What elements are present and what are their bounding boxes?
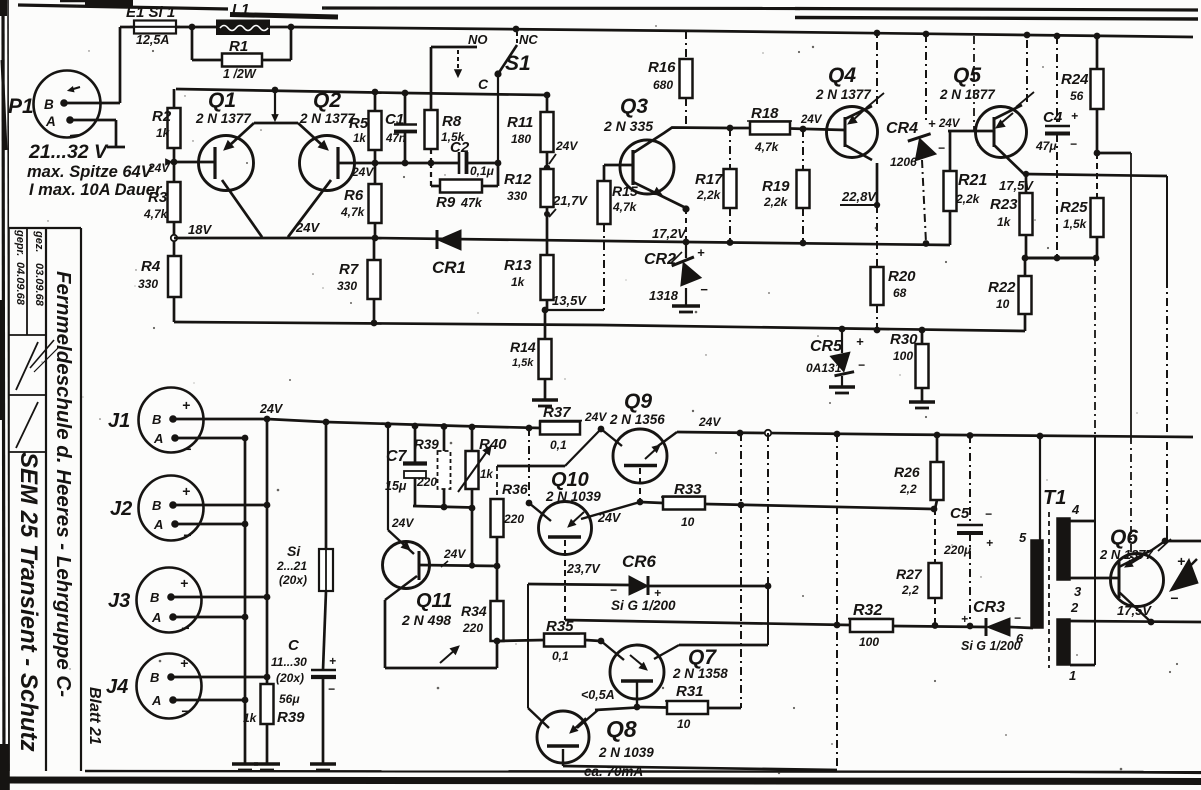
wire Q6 emitter [1119,592,1151,622]
svg-text:B: B [44,97,54,112]
svg-text:C5: C5 [950,505,970,522]
diode CR5 [806,329,865,386]
inductor L1 [217,1,291,34]
svg-text:R14: R14 [510,339,536,355]
svg-text:180: 180 [511,132,531,146]
label 24V Q11b [441,547,466,567]
svg-text:+: + [180,575,188,591]
svg-text:12,5A: 12,5A [136,33,169,47]
svg-text:10: 10 [996,297,1010,311]
svg-text:5: 5 [1019,530,1027,545]
svg-text:24V: 24V [938,118,961,130]
svg-text:2 N 335: 2 N 335 [603,118,653,134]
wire R31 riser [740,505,742,708]
svg-text:1206: 1206 [890,155,917,169]
node R7 top [372,235,379,242]
wire bar y258 [1025,257,1097,260]
resistor R35 [497,618,601,663]
node R18-Q4 [800,126,807,133]
svg-text:R26: R26 [894,464,920,480]
resistor R3 [143,162,181,238]
transformer T1 [1016,436,1082,683]
node y163 R8 [428,160,435,167]
svg-text:J1: J1 [108,410,130,432]
node rail Q4 [874,30,881,37]
wire Q10 emitter [568,502,640,527]
svg-text:0A131: 0A131 [806,361,842,375]
resistor R31 [637,683,741,731]
label 21,7V [544,193,588,217]
node y90 center [272,87,279,94]
svg-text:−: − [610,583,617,597]
svg-text:I max. 10A Dauer: I max. 10A Dauer [29,181,163,199]
svg-text:4: 4 [1071,502,1080,517]
wire T1 pin4 [1070,520,1095,523]
wire Q11 emitter [385,576,497,668]
resistor R25 [1060,153,1104,258]
resistor R24 [1061,36,1104,153]
node rail R39b [441,423,448,430]
svg-text:1k: 1k [511,275,526,289]
wire Q6 collector [1119,538,1201,567]
svg-text:0,1: 0,1 [552,649,569,663]
connector J3 [108,568,202,637]
connector J4 [106,654,202,720]
svg-text:0,1μ: 0,1μ [470,164,495,178]
svg-text:C: C [288,637,300,654]
resistor R1 [192,27,291,81]
svg-text:Blatt 21: Blatt 21 [86,687,103,745]
wire R32 line [565,586,986,627]
svg-text:R32: R32 [853,602,882,619]
resistor R11 [507,95,554,168]
svg-text:2 N 1377: 2 N 1377 [195,111,252,126]
svg-text:gepr.: gepr. [14,229,26,256]
node 24V R11 [544,165,551,172]
svg-text:R11: R11 [507,114,533,131]
label ca 70mA [564,764,655,780]
svg-text:<0,5A: <0,5A [581,688,615,702]
svg-text:R7: R7 [339,261,359,278]
diode CR1 [432,230,466,277]
resistor R7 [337,238,381,323]
svg-text:J3: J3 [108,590,130,612]
input ratings text [27,141,163,199]
node y240 CR4 [923,240,930,247]
svg-text:10: 10 [681,515,695,529]
svg-text:R31: R31 [676,683,704,700]
wire Q2 coupling top [298,123,328,150]
wire 24V rail bottom right [677,432,1193,437]
node y128 R17 [727,125,734,132]
svg-text:−: − [1014,611,1021,625]
svg-text:2 N 498: 2 N 498 [401,612,451,628]
svg-text:R36: R36 [502,481,528,497]
node y163 S1C [495,160,502,167]
node rail Q9 [598,426,605,433]
node fuse-L1 [189,24,196,31]
wire Q5 output line right [1166,176,1168,540]
wire lower rail y240 [174,238,950,245]
svg-text:A: A [45,114,56,129]
wire J2.B [173,504,267,507]
svg-text:E1 Si 1: E1 Si 1 [126,4,175,21]
svg-text:2 N 1358: 2 N 1358 [672,666,728,681]
node rail2 R11 [544,92,551,99]
resistor R21 [944,131,988,245]
svg-text:R21: R21 [958,172,987,189]
svg-text:330: 330 [337,279,357,293]
resistor R30 [890,330,929,401]
resistor R9 [431,163,498,211]
resistor R34 [461,566,504,668]
resistor R39 second [414,426,451,507]
node Q7 emitter [634,704,641,711]
node rail R40 [469,424,476,431]
wire J1.B extension [267,419,326,422]
svg-text:C2: C2 [450,139,470,156]
wire P1.A stub [70,120,125,147]
node J1.A [242,435,249,442]
resistor R36 [491,429,602,566]
resistor R22 [988,258,1032,331]
resistor R33 [640,481,933,529]
diode CR2 zener [644,244,708,305]
node y90 C1 [402,90,409,97]
svg-text:220: 220 [503,512,524,526]
svg-text:R22: R22 [988,279,1016,296]
svg-text:21,7V: 21,7V [552,193,588,208]
wire T1 pin1 [1070,664,1095,667]
node R1-rail [288,24,295,31]
node R32line R27 [932,622,939,629]
svg-text:100: 100 [893,349,913,363]
node Q2 emitter [372,160,379,167]
svg-text:100: 100 [859,635,879,649]
svg-text:2...21: 2...21 [276,559,307,573]
svg-text:220: 220 [416,475,437,489]
node x837 R32 [834,622,841,629]
svg-text:CR1: CR1 [432,258,466,277]
wire x837 column [836,434,838,770]
svg-text:6: 6 [1016,631,1024,646]
transistor Q1 [174,89,254,191]
svg-text:2,2k: 2,2k [955,192,981,206]
wire Q4 collector [845,145,877,205]
svg-text:R25: R25 [1060,199,1088,216]
wire Q8 emitter [563,749,837,770]
diode CR4 zener [886,34,945,243]
wire Q5 emitter [994,145,1167,176]
wire Q1 coupling top [224,90,298,150]
svg-text:R9: R9 [436,194,456,211]
wire CR6 line [528,584,768,586]
svg-text:R23: R23 [990,196,1018,213]
transistor Q10 [539,469,602,555]
svg-text:2 N 1356: 2 N 1356 [609,412,665,427]
svg-text:L1: L1 [232,1,250,18]
node R24 bottom [1094,150,1101,157]
node y240 R19 [800,240,807,247]
svg-text:4,7k: 4,7k [143,207,169,221]
resistor R13 [504,255,554,310]
node J4.A [242,697,249,704]
label 13,5V [545,293,604,310]
node J1.B [264,416,271,423]
transistor Q8 [537,711,654,763]
wire T1 pin2 line [1070,621,1201,622]
svg-text:2 N 1039: 2 N 1039 [598,745,654,760]
svg-text:−: − [328,682,335,696]
svg-text:24V: 24V [147,161,170,175]
svg-text:A: A [151,693,161,708]
node midrail CR5 [839,326,846,333]
switch S1 [431,31,538,163]
svg-text:R40: R40 [479,436,507,453]
transistor Q9 [601,390,677,483]
svg-text:CR3: CR3 [973,599,1005,616]
ground C bank [310,762,336,765]
node Si top [323,419,330,426]
svg-text:13,5V: 13,5V [552,293,587,308]
node J3.A [242,614,249,621]
wire main +rail [291,27,1193,37]
svg-text:1,5k: 1,5k [1063,217,1088,231]
svg-text:Q2: Q2 [313,89,341,112]
svg-text:330: 330 [138,277,158,291]
svg-text:2,2: 2,2 [899,482,917,496]
label 24V Q1 [147,161,170,175]
wire J2.A [175,523,245,526]
svg-text:R37: R37 [543,404,571,421]
svg-text:10: 10 [677,717,691,731]
svg-text:R15: R15 [612,183,638,199]
wire emitter rail y163 [375,162,459,165]
svg-text:R2: R2 [152,108,172,125]
svg-text:−: − [1170,590,1178,606]
svg-text:R4: R4 [141,258,161,275]
fuse E1 Si1 [120,4,218,47]
capacitor C1 [385,93,417,163]
wire T1 pin3 to Q6 [1070,577,1119,580]
svg-text:R3: R3 [148,189,168,206]
resistor R16 [648,31,693,128]
svg-text:−: − [938,141,945,155]
svg-text:Q8: Q8 [606,716,637,742]
svg-text:R24: R24 [1061,71,1089,88]
resistor R37 [539,404,582,452]
wire J1.B [173,418,267,421]
node rail S1 [513,26,520,33]
svg-text:+: + [986,536,993,550]
svg-text:S1: S1 [505,52,531,75]
svg-text:gez.: gez. [33,230,45,252]
svg-text:CR6: CR6 [622,552,657,571]
svg-text:+: + [961,612,968,626]
svg-text:24V: 24V [597,511,622,525]
svg-text:R30: R30 [890,331,918,348]
wire Q4 emitter to rail [845,34,877,124]
title block table [9,228,81,771]
capacitor C7 [385,426,427,506]
svg-text:56μ: 56μ [279,692,300,706]
svg-text:04.09.68: 04.09.68 [14,262,26,306]
svg-text:B: B [150,670,159,685]
wire x1095 column [1094,258,1096,665]
svg-text:−: − [181,703,189,719]
wire Q1 emitter diagonal [222,180,262,237]
svg-text:220μ: 220μ [943,543,972,557]
svg-text:680: 680 [653,78,673,92]
transistor Q3 [603,95,674,194]
wire Q11 collector riser [388,425,414,554]
resistor R4 [138,241,181,322]
svg-text:+: + [1071,109,1078,123]
svg-text:Si G 1/200: Si G 1/200 [961,639,1021,653]
wire mid rail y325 [174,322,1025,331]
wire P1.B to fuse [64,27,120,103]
node J4.B [264,674,271,681]
svg-text:C1: C1 [385,111,404,128]
svg-text:P1: P1 [8,95,34,118]
node Q11 base R36 [494,563,501,570]
wire J1.A [175,437,245,440]
svg-text:Q9: Q9 [624,390,652,413]
label 22,8V [840,189,880,208]
svg-text:−: − [1070,137,1077,151]
ground trunk B [254,762,280,765]
svg-text:220: 220 [462,621,483,635]
ground R30 [909,400,935,403]
wire Q10 collector [526,428,551,521]
resistor R8 [425,47,466,163]
svg-text:47n: 47n [385,133,406,145]
transistor Q4 [815,64,884,158]
svg-text:2,2k: 2,2k [696,188,722,202]
svg-text:A: A [151,610,161,625]
svg-text:−: − [183,441,191,457]
svg-text:B: B [150,590,159,605]
svg-text:−: − [183,527,191,543]
svg-text:11...30: 11...30 [271,655,307,669]
node rail x837 [834,431,841,438]
svg-text:56: 56 [1070,89,1084,103]
svg-text:24V: 24V [259,402,284,416]
svg-text:3: 3 [1074,584,1082,599]
node 13,5V [542,307,549,314]
svg-text:22,8V: 22,8V [841,189,877,204]
wire trunk A [244,438,247,763]
wire Q3 emitter [633,182,690,242]
diode CR3 [961,599,1033,653]
node R32line C5 [967,623,974,630]
svg-text:R19: R19 [762,178,790,195]
ground trunk A [232,762,258,765]
svg-text:1: 1 [1069,668,1076,683]
svg-text:1k: 1k [997,215,1012,229]
svg-text:+: + [928,116,936,131]
svg-text:68: 68 [893,286,907,300]
svg-text:R12: R12 [504,171,532,188]
svg-text:−: − [181,620,189,636]
wire trunk B [266,419,269,677]
wire Q8 collector [528,584,549,728]
node R33 x741 [738,502,745,509]
svg-text:2 N 1039: 2 N 1039 [545,489,601,504]
svg-text:C: C [478,76,489,92]
svg-text:R20: R20 [888,268,916,285]
svg-text:+: + [697,245,705,260]
svg-text:NO: NO [468,32,488,47]
node rail R26 [934,432,941,439]
node Q9-R33 [637,499,644,506]
svg-text:4,7k: 4,7k [340,205,366,219]
capacitor C2 [450,139,498,178]
node midrail R20 [874,327,881,334]
node 18V open [171,235,177,241]
svg-text:24V: 24V [800,114,823,126]
svg-text:A: A [153,431,163,446]
svg-text:4,7k: 4,7k [754,140,780,154]
node rail T1 [1037,433,1044,440]
svg-text:24V: 24V [295,220,320,235]
resistor R20 [871,205,917,331]
svg-text:17,5V: 17,5V [999,178,1034,193]
wire Q5 collector to rail [994,36,1027,128]
node R33 R26 [931,506,938,513]
svg-text:1k: 1k [353,133,366,145]
node bar R25 [1093,255,1100,262]
node pin2 Q6e [1148,619,1155,626]
svg-text:24V: 24V [443,547,466,561]
svg-text:CR2: CR2 [644,251,676,268]
connector J2 [110,476,204,544]
ground CR5 [829,385,855,388]
wire J3.A [173,616,245,619]
svg-text:Fernmeldeschule d. Heeres - Le: Fernmeldeschule d. Heeres - Lehrgruppe C… [52,271,75,697]
svg-text:23,7V: 23,7V [566,562,601,576]
wire 24V rail bottom left [326,422,540,428]
svg-text:1k: 1k [480,469,493,481]
capacitor C bank [271,591,336,763]
node rail C5 [967,432,974,439]
svg-text:R39: R39 [414,437,439,452]
wire x741 riser to rail [737,430,744,505]
resistor R2 [152,89,181,162]
svg-text:C4: C4 [1043,109,1063,126]
transistor Q7 [601,641,728,707]
svg-text:R8: R8 [442,113,462,130]
diode CR6 [610,552,676,613]
resistor R15 [598,165,638,310]
svg-text:47k: 47k [460,196,483,210]
node R35 right [598,638,605,645]
svg-text:1k: 1k [156,126,171,140]
svg-text:B: B [152,412,161,427]
svg-text:2,2: 2,2 [901,583,919,597]
svg-text:Si: Si [287,543,301,559]
node rail C7 [412,423,419,430]
node rail CR4 [923,31,930,38]
svg-text:−: − [858,358,865,372]
svg-text:CR4: CR4 [886,120,918,137]
svg-text:47μ: 47μ [1035,139,1057,153]
svg-text:24V: 24V [584,410,607,424]
connector J1 [108,388,204,458]
output arrow [1170,553,1198,606]
svg-text:J4: J4 [106,676,128,698]
node bar R23 [1022,255,1029,262]
